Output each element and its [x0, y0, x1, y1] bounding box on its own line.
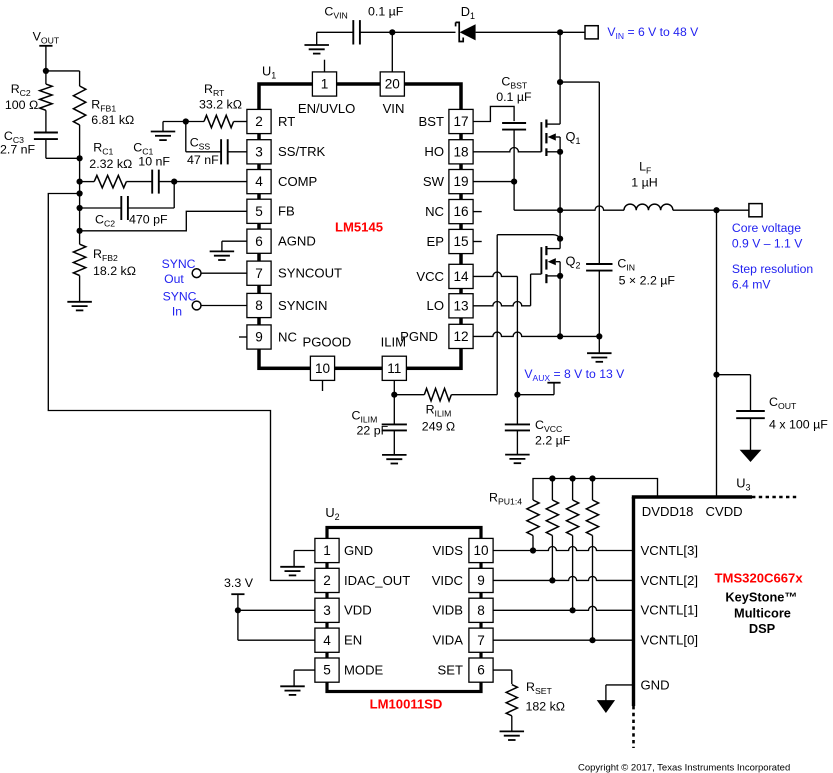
svg-text:AGND: AGND — [278, 234, 316, 249]
node COUT junction — [713, 372, 719, 378]
svg-text:6: 6 — [255, 234, 263, 249]
R_ILIM value 249 Ohm — [422, 420, 455, 434]
U1 pin 14 box — [449, 264, 473, 288]
R_SET label — [526, 680, 553, 696]
svg-text:14: 14 — [453, 269, 469, 284]
R_RT value 33.2 kOhm — [199, 98, 242, 112]
pin label CVDD — [706, 504, 743, 519]
svg-text:COMP: COMP — [278, 174, 318, 189]
svg-text:33.2 kΩ: 33.2 kΩ — [199, 98, 242, 112]
node FB junction — [77, 228, 83, 234]
U3 DSP label — [749, 621, 776, 636]
resistor R_PU3 — [567, 479, 579, 611]
wire CIN branch — [560, 82, 599, 264]
transistor Q1 — [541, 120, 560, 157]
svg-text:Step resolution: Step resolution — [732, 262, 813, 276]
svg-text:3: 3 — [255, 144, 263, 159]
svg-text:SYNCIN: SYNCIN — [278, 298, 327, 313]
U2 pin 8 box — [469, 598, 493, 622]
wire V_OUT to R_FB1 — [46, 71, 80, 86]
wire EN stub — [324, 60, 326, 72]
svg-text:6.81 kΩ: 6.81 kΩ — [91, 113, 134, 127]
U2 part name LM10011SD — [370, 697, 443, 712]
pin label GND — [344, 543, 373, 558]
pin label SYNCIN — [278, 298, 327, 313]
wire PGND ground stub — [598, 336, 600, 353]
pin label NC — [278, 329, 297, 344]
C_SS value 47 nF — [187, 153, 219, 167]
node VIDS-RPU1 junction — [530, 547, 536, 553]
transistor Q2 — [541, 239, 560, 284]
pin label VDD — [344, 603, 372, 618]
node VCC-VAUX junction — [514, 392, 520, 398]
U1 pin 13 box — [449, 294, 473, 318]
R_PU label — [489, 491, 522, 507]
R_ILIM label — [426, 403, 452, 419]
svg-text:5: 5 — [255, 204, 263, 219]
svg-text:18.2 kΩ: 18.2 kΩ — [93, 264, 136, 278]
svg-text:SYNCOUT: SYNCOUT — [278, 266, 342, 281]
svg-text:MODE: MODE — [344, 663, 384, 678]
svg-text:4: 4 — [323, 633, 331, 648]
R_C1 value 2.32 kOhm — [89, 157, 132, 171]
pin label EN/UVLO — [298, 101, 355, 116]
V_AUX annotation — [524, 367, 625, 383]
node Q1 source junction — [557, 149, 563, 155]
pin label VIDA — [432, 633, 463, 648]
wire SW to L_F — [560, 206, 624, 210]
pin label NC — [425, 204, 444, 219]
wire EP pin 15 stub — [473, 241, 482, 243]
wire to core terminal — [717, 209, 749, 211]
node VIN junction — [389, 29, 395, 35]
3.3V terminal — [231, 593, 244, 595]
C_VCC label — [535, 418, 562, 434]
svg-text:LM10011SD: LM10011SD — [370, 697, 443, 712]
U2 pin 6 box — [469, 658, 493, 682]
svg-text:Core voltage: Core voltage — [732, 221, 801, 235]
svg-text:16: 16 — [453, 204, 468, 219]
svg-text:VCNTL[2]: VCNTL[2] — [641, 573, 698, 588]
U1 pin 10 box — [310, 356, 334, 380]
pin label VCNTL[1] — [641, 603, 698, 618]
U1 reference designator — [262, 64, 276, 81]
wire PGOOD stub — [322, 380, 324, 391]
svg-text:6.4 mV: 6.4 mV — [732, 278, 771, 292]
wire RT — [163, 121, 186, 123]
svg-text:GND: GND — [344, 543, 373, 558]
U1 pin 7 box — [247, 261, 271, 285]
svg-text:ILIM: ILIM — [381, 334, 406, 349]
node CIN branch junction — [557, 79, 563, 85]
node PGND-CIN junction — [596, 333, 602, 339]
U1 pin 17 box — [449, 109, 473, 133]
svg-text:LO: LO — [427, 298, 444, 313]
svg-text:VIDB: VIDB — [432, 603, 463, 618]
svg-text:2: 2 — [255, 114, 263, 129]
svg-text:20: 20 — [385, 77, 401, 92]
pin label EN — [344, 633, 362, 648]
core voltage terminal — [749, 204, 762, 217]
capacitor C_C3 — [34, 110, 58, 139]
pin label VIDB — [432, 603, 463, 618]
resistor R_ILIM — [394, 389, 497, 401]
svg-text:10 nF: 10 nF — [138, 155, 170, 169]
node VIDA-RPU4 junction — [589, 637, 595, 643]
svg-text:LM5145: LM5145 — [335, 220, 383, 235]
U2 pin 4 box — [315, 628, 339, 652]
svg-text:EP: EP — [427, 234, 445, 249]
U1 pin 20 box — [380, 72, 404, 96]
node Q2 drain junction — [557, 236, 563, 242]
svg-text:IDAC_OUT: IDAC_OUT — [344, 573, 410, 588]
node SW junction — [557, 207, 563, 213]
svg-text:8: 8 — [255, 298, 263, 313]
svg-text:NC: NC — [278, 329, 297, 344]
svg-text:GND: GND — [641, 678, 670, 693]
pin label VCC — [416, 269, 444, 284]
op-amp U1 LM5145 controller body — [259, 84, 461, 368]
pin label EP — [427, 234, 445, 249]
capacitor C_IN — [586, 264, 612, 271]
node FB divider junction — [77, 155, 83, 161]
pin label HO — [424, 144, 444, 159]
ground R_FB2 — [67, 302, 92, 311]
U2 pin 5 box — [315, 658, 339, 682]
svg-text:4: 4 — [255, 174, 263, 189]
svg-text:CVDD: CVDD — [706, 504, 743, 519]
svg-text:VCNTL[1]: VCNTL[1] — [641, 603, 698, 618]
resistor R_PU4 — [586, 479, 598, 641]
resistor R_SET — [506, 685, 517, 732]
svg-text:0.9 V – 1.1 V: 0.9 V – 1.1 V — [732, 237, 803, 251]
svg-text:4 x 100 µF: 4 x 100 µF — [769, 418, 828, 432]
svg-text:KeyStone™: KeyStone™ — [725, 590, 797, 605]
pin label PGND — [400, 329, 438, 344]
svg-text:HO: HO — [424, 144, 444, 159]
wire FB pin 5 — [80, 211, 247, 231]
wire C_C3 to FB node — [46, 139, 80, 159]
SYNC In label — [163, 290, 197, 319]
U1 pin 16 box — [449, 200, 473, 224]
node RT junction — [183, 118, 189, 124]
node rail RPU4 junction — [589, 475, 595, 481]
svg-text:In: In — [172, 305, 182, 319]
V_AUX terminal — [517, 383, 560, 395]
node PGND-Q2 junction — [557, 333, 563, 339]
svg-text:11: 11 — [387, 361, 401, 376]
resistor R_FB1 — [73, 86, 85, 158]
pin label VCNTL[3] — [641, 543, 698, 558]
U1 pin 1 box — [312, 72, 336, 96]
U1 pin 8 box — [247, 293, 271, 317]
wire L_F to output — [673, 209, 717, 211]
power ground C_OUT — [741, 450, 761, 461]
capacitor C_VIN — [317, 20, 393, 44]
wire AGND — [222, 241, 247, 251]
svg-text:470 pF: 470 pF — [129, 213, 168, 227]
svg-text:0.1 µF: 0.1 µF — [496, 90, 532, 104]
ground C_ILIM — [382, 455, 407, 464]
svg-text:5: 5 — [323, 663, 331, 678]
svg-text:8: 8 — [477, 603, 485, 618]
svg-text:10: 10 — [473, 543, 489, 558]
node SW-CBST junction — [511, 179, 517, 185]
svg-text:1 µH: 1 µH — [631, 176, 657, 190]
svg-text:RT: RT — [278, 114, 295, 129]
ground U2 pin1 — [280, 567, 305, 576]
D1 label — [461, 4, 475, 21]
svg-text:9: 9 — [255, 330, 263, 345]
svg-text:6: 6 — [477, 663, 485, 678]
svg-text:2: 2 — [323, 573, 331, 588]
R_SET value 182 kOhm — [526, 700, 566, 714]
svg-text:Out: Out — [164, 272, 184, 286]
wire C_BST bottom — [513, 129, 515, 182]
Q2 label — [566, 254, 581, 271]
wire U2 MODE pin 5 — [294, 670, 315, 686]
wire VIN rail to D1 — [392, 31, 455, 33]
capacitor C_BST — [502, 123, 526, 130]
svg-text:0.1 µF: 0.1 µF — [368, 5, 404, 19]
U2 pin 1 box — [315, 538, 339, 562]
pin label FB — [278, 204, 295, 219]
wire FB column — [79, 158, 81, 231]
U1 pin 11 box — [382, 356, 406, 380]
wire VCC vertical — [516, 276, 518, 394]
wire IDAC_OUT feedback — [48, 194, 315, 581]
svg-text:9: 9 — [477, 573, 485, 588]
U2 pin 3 box — [315, 598, 339, 622]
pin label IDAC_OUT — [344, 573, 410, 588]
node V_OUT junction — [43, 68, 49, 74]
svg-text:TMS320C667x: TMS320C667x — [715, 571, 804, 586]
wire BST pin 17 — [473, 106, 514, 121]
wire NC pin 16 stub — [473, 211, 482, 213]
svg-text:EN/UVLO: EN/UVLO — [298, 101, 355, 116]
wire ILIM sense vertical — [497, 235, 560, 395]
pin label RT — [278, 114, 295, 129]
svg-text:18: 18 — [453, 144, 468, 159]
wire C_C2 riser — [173, 182, 175, 208]
R_FB1 value 6.81 kOhm — [91, 113, 134, 127]
resistor R_PU1 — [527, 500, 539, 551]
wire U2 GND pin 1 — [294, 551, 315, 567]
wire SW pin 19 — [473, 181, 514, 183]
resistor R_C1 — [80, 175, 127, 187]
pin label LO — [427, 298, 444, 313]
svg-text:EN: EN — [344, 633, 362, 648]
U1 pin 12 box — [449, 324, 473, 348]
svg-text:2.7 nF: 2.7 nF — [0, 143, 36, 157]
C_ILIM label — [352, 409, 378, 425]
svg-text:2.2 µF: 2.2 µF — [535, 434, 571, 448]
wire COMP to pin 4 — [174, 181, 247, 183]
VIN input terminal — [585, 26, 598, 39]
svg-text:2.32 kΩ: 2.32 kΩ — [89, 157, 132, 171]
pin label MODE — [344, 663, 384, 678]
svg-text:SYNC: SYNC — [162, 257, 196, 271]
pin label VCNTL[2] — [641, 573, 698, 588]
op-amp U2 LM10011 body — [327, 528, 481, 692]
svg-text:19: 19 — [453, 174, 468, 189]
C_C2 value 470 pF — [129, 213, 168, 227]
capacitor C_C1 — [126, 170, 174, 194]
svg-text:VIDS: VIDS — [432, 543, 463, 558]
node rail RPU3 junction — [570, 475, 576, 481]
wire output to CVDD — [716, 210, 718, 497]
wire VIN vertical to Q1 — [559, 32, 561, 124]
svg-text:VIDA: VIDA — [432, 633, 463, 648]
svg-text:VCNTL[3]: VCNTL[3] — [641, 543, 698, 558]
svg-text:VCC: VCC — [416, 269, 444, 284]
wire VIDS to VCNTL3 — [493, 547, 633, 551]
C_SS label — [190, 136, 211, 152]
diode D1 schottky — [456, 22, 476, 41]
wire SW to Q2 drain — [559, 210, 561, 239]
ground U2 pin5 — [280, 686, 305, 695]
wire LO pin 13 — [473, 274, 541, 306]
svg-text:SW: SW — [423, 174, 445, 189]
C_OUT label — [769, 395, 797, 411]
svg-text:Copyright © 2017, Texas Instru: Copyright © 2017, Texas Instruments Inco… — [578, 763, 790, 773]
node 3.3V-VDD junction — [235, 607, 241, 613]
svg-text:SS/TRK: SS/TRK — [278, 144, 326, 159]
wire D1 anode to VIN terminal — [476, 31, 585, 33]
wire VIDC to VCNTL2 — [493, 576, 633, 580]
U1 part name LM5145 — [335, 220, 383, 235]
C_ILIM value 22 pF — [357, 424, 389, 438]
wire VIDB to VCNTL1 — [493, 606, 633, 610]
node COMP net junction — [171, 179, 177, 185]
node IDAC junction — [77, 190, 83, 196]
wire Q2 source to PGND — [559, 276, 561, 337]
node COMP junction — [77, 179, 83, 185]
pin label COMP — [278, 174, 318, 189]
svg-text:1: 1 — [323, 543, 331, 558]
node output junction — [713, 207, 719, 213]
svg-text:3.3 V: 3.3 V — [224, 576, 254, 590]
capacitor C_OUT — [736, 411, 765, 450]
3.3V label — [224, 576, 254, 590]
wire Q1 source to SW — [559, 152, 561, 210]
svg-text:SYNC: SYNC — [163, 290, 197, 304]
Step resolution annotation — [732, 262, 813, 292]
pin label ILIM — [381, 334, 406, 349]
node Q2 source junction — [557, 273, 563, 279]
wire SYNCOUT — [201, 272, 247, 274]
svg-text:DSP: DSP — [749, 621, 776, 636]
R_C2 value 100 Ohm — [5, 98, 38, 112]
U1 pin 5 box — [247, 199, 271, 223]
pin label DVDD18 — [642, 504, 694, 519]
wire V_OUT stub — [45, 46, 47, 71]
U2 pin 9 box — [469, 568, 493, 592]
U3 reference designator — [736, 476, 750, 493]
R_RT label — [204, 82, 225, 98]
V_IN annotation — [607, 25, 699, 41]
wire VCC pin 14 — [473, 272, 517, 276]
node VIDB-RPU3 junction — [570, 607, 576, 613]
svg-text:12: 12 — [453, 329, 468, 344]
R_FB1 label — [91, 98, 116, 114]
svg-text:13: 13 — [453, 298, 468, 313]
svg-text:Multicore: Multicore — [734, 606, 791, 621]
U3 KeyStone label — [725, 590, 797, 605]
capacitor C_C2 — [80, 196, 175, 220]
wire HO pin 18 — [473, 147, 541, 151]
ground R_RT — [151, 122, 176, 141]
ground C_VIN — [304, 32, 329, 53]
svg-text:NC: NC — [425, 204, 444, 219]
U2 reference designator — [325, 505, 339, 522]
pin label GND U3 — [641, 678, 670, 693]
pin label SYNCOUT — [278, 266, 342, 281]
svg-text:1: 1 — [321, 77, 329, 92]
U3 name TMS320C667x — [715, 571, 804, 586]
Q1 label — [566, 129, 581, 146]
U1 pin 4 box — [247, 170, 271, 194]
svg-text:47 nF: 47 nF — [187, 153, 219, 167]
C_C3 label — [4, 129, 24, 145]
ground C_VCC — [505, 455, 530, 464]
SYNCOUT terminal circle — [192, 269, 201, 278]
resistor R_FB2 — [73, 231, 85, 302]
resistor R_C2 — [40, 71, 52, 110]
pin label BST — [419, 114, 444, 129]
R_FB2 label — [93, 247, 118, 263]
resistor R_RT — [186, 115, 247, 127]
wire VIDA to VCNTL0 — [493, 639, 633, 641]
U1 pin 18 box — [449, 140, 473, 164]
wire SET pin 6 — [493, 670, 512, 684]
wire VIN pin 20 — [391, 32, 393, 72]
U2 pin 7 box — [469, 628, 493, 652]
R_C2 label — [11, 82, 31, 98]
capacitor C_VCC — [505, 395, 530, 455]
svg-text:DVDD18: DVDD18 — [642, 504, 694, 519]
wire NC pin 9 stub — [239, 336, 247, 338]
wire U3 GND — [606, 685, 634, 701]
svg-text:PGOOD: PGOOD — [303, 334, 352, 349]
pin label VIDS — [432, 543, 463, 558]
U3 DSP body edges — [632, 497, 798, 748]
svg-text:VCNTL[0]: VCNTL[0] — [641, 633, 698, 648]
U1 pin 9 box — [247, 325, 271, 349]
svg-text:SET: SET — [438, 663, 463, 678]
wire SW drop — [514, 182, 560, 211]
svg-text:100 Ω: 100 Ω — [5, 98, 38, 112]
svg-text:5 × 2.2 µF: 5 × 2.2 µF — [619, 273, 676, 287]
capacitor C_SS — [186, 122, 247, 165]
wire 3.3V to VDD/EN — [238, 594, 315, 640]
node rail RPU2 junction — [549, 475, 555, 481]
R_C1 label — [93, 141, 113, 157]
power ground U3 GND — [598, 701, 614, 713]
inductor L_F — [624, 204, 673, 210]
L_F value 1 uH — [631, 176, 657, 190]
svg-text:7: 7 — [255, 266, 263, 281]
Core voltage annotation — [732, 221, 803, 251]
svg-text:182 kΩ: 182 kΩ — [526, 700, 566, 714]
U3 Multicore label — [734, 606, 791, 621]
svg-text:VIN: VIN — [383, 101, 405, 116]
U1 pin 2 box — [247, 109, 271, 133]
pin label PGOOD — [303, 334, 352, 349]
ground PGND — [587, 353, 612, 362]
wire pullup rail — [533, 479, 658, 501]
SYNCIN terminal circle — [192, 301, 201, 310]
